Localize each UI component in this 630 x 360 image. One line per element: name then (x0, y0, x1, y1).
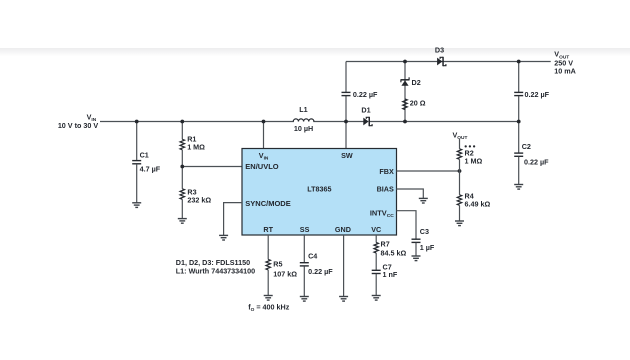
ground (C1) (132, 203, 141, 208)
svg-text:232 kΩ: 232 kΩ (187, 195, 211, 204)
wire VIN pin riser (263, 122, 265, 149)
net VOUT output label (554, 50, 576, 76)
IC U1 LT8365 (242, 149, 397, 236)
junction VIN-pin riser (262, 120, 266, 124)
resistor 20 ohm (403, 98, 426, 109)
resistor R5 (266, 259, 297, 295)
svg-text:SW: SW (341, 151, 353, 160)
junction SW node (344, 120, 348, 124)
svg-text:0.22 µF: 0.22 µF (524, 158, 549, 167)
wire riser to top rail (345, 62, 347, 93)
svg-text:R5: R5 (273, 260, 282, 269)
ground (C3) (412, 256, 421, 261)
svg-text:0.22 µF: 0.22 µF (353, 90, 378, 99)
net VOUT divider label (453, 131, 476, 148)
ground (C2) (514, 185, 523, 190)
svg-text:10 µH: 10 µH (294, 124, 313, 133)
wire D1 to C2 node (370, 121, 519, 123)
ground (GND pin) (339, 297, 348, 302)
svg-text:BIAS: BIAS (377, 185, 394, 194)
ground (SYNC/MODE) (219, 235, 228, 240)
junction VIN-R1 (180, 120, 184, 124)
resistor R1 (180, 122, 205, 152)
svg-text:C2: C2 (522, 142, 531, 151)
resistor R3 (180, 188, 211, 219)
svg-text:10 mA: 10 mA (554, 67, 576, 76)
svg-text:0.22 µF: 0.22 µF (525, 90, 550, 99)
inductor L1 (293, 105, 314, 133)
svg-text:L1: Wurth 74437334100: L1: Wurth 74437334100 (176, 267, 255, 276)
svg-text:1 µF: 1 µF (420, 243, 435, 252)
wire BIAS (397, 189, 424, 198)
svg-text:LT8365: LT8365 (307, 185, 331, 194)
wire INTVCC (397, 211, 417, 239)
svg-text:107 kΩ: 107 kΩ (273, 270, 297, 279)
ground (C7) (372, 296, 381, 301)
wire VIN rail (100, 121, 294, 123)
svg-text:SS: SS (300, 225, 310, 234)
junction FBX divider (458, 169, 462, 173)
junction VOUT rail (517, 60, 521, 64)
svg-text:1 MΩ: 1 MΩ (187, 143, 205, 152)
wire EN/UVLO (182, 166, 242, 168)
capacitor 0.22uF charge pump (342, 90, 379, 99)
diode D2 (401, 62, 421, 122)
svg-text:1 nF: 1 nF (383, 270, 398, 279)
resistor R4 (457, 171, 490, 221)
resistor R2 (457, 139, 482, 171)
junction EN/UVLO divider (180, 165, 184, 169)
svg-text:GND: GND (335, 225, 351, 234)
ground (R4) (455, 221, 464, 226)
wire RT (267, 235, 269, 259)
svg-text:RT: RT (263, 225, 273, 234)
capacitor C7 (372, 253, 398, 295)
capacitor C4 (300, 252, 333, 297)
svg-text:C1: C1 (140, 151, 149, 160)
svg-text:FBX: FBX (379, 167, 394, 176)
ground (R5) (264, 296, 273, 301)
svg-text:fO = 400 kHz: fO = 400 kHz (248, 302, 290, 313)
svg-text:D1: D1 (361, 106, 370, 115)
svg-text:10 V to 30 V: 10 V to 30 V (58, 121, 99, 130)
svg-text:L1: L1 (299, 105, 307, 114)
wire SS (303, 235, 305, 263)
capacitor C3 (412, 227, 435, 256)
wire SYNC/MODE (224, 203, 242, 236)
ground (R3) (178, 219, 187, 224)
svg-text:0.22 µF: 0.22 µF (308, 267, 333, 276)
svg-text:6.49 kΩ: 6.49 kΩ (465, 199, 491, 208)
junction VIN-C1 (135, 120, 139, 124)
wire GND pin (343, 235, 345, 296)
wire SW node to D1 (313, 121, 364, 123)
svg-text:4.7 µF: 4.7 µF (140, 165, 161, 174)
capacitor C2 (514, 122, 549, 185)
wire VC (375, 235, 377, 243)
junction D2 bottom (403, 120, 407, 124)
capacitor 0.22uF output stack top (514, 62, 549, 122)
ground (BIAS) (419, 198, 428, 203)
diode D1 (361, 106, 372, 127)
junction D2 top rail (403, 60, 407, 64)
wire top rail (346, 61, 551, 63)
svg-text:84.5 kΩ: 84.5 kΩ (381, 249, 407, 258)
svg-text:1 MΩ: 1 MΩ (465, 157, 483, 166)
svg-text:R7: R7 (381, 239, 390, 248)
wire SW riser (345, 96, 347, 149)
svg-text:EN/UVLO: EN/UVLO (245, 162, 279, 171)
capacitor C1 (132, 122, 161, 203)
svg-text:D2: D2 (412, 78, 421, 87)
svg-text:C4: C4 (308, 252, 317, 261)
note component values (176, 258, 255, 276)
junction C2 top (517, 120, 521, 124)
resistor R7 (374, 239, 406, 257)
svg-text:VC: VC (371, 225, 381, 234)
wire R1 to R3 (181, 150, 183, 189)
svg-text:20 Ω: 20 Ω (410, 98, 426, 107)
svg-text:D3: D3 (435, 46, 444, 55)
wire FBX (397, 170, 460, 172)
net VIN label (58, 113, 99, 130)
diode D3 (435, 46, 446, 67)
svg-text:C3: C3 (420, 227, 429, 236)
ground (C4) (300, 297, 309, 302)
svg-text:SYNC/MODE: SYNC/MODE (245, 199, 290, 208)
